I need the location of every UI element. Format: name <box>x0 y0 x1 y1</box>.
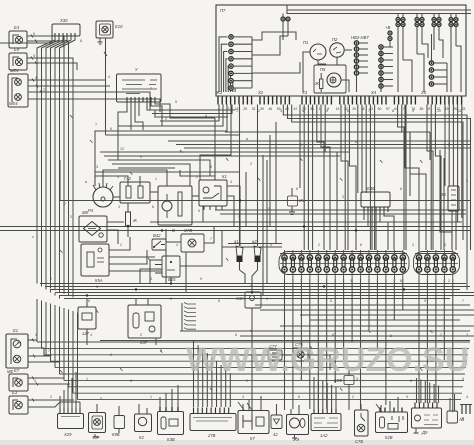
svg-text:127: 127 <box>82 331 90 336</box>
relay block U (flasher unit) <box>117 74 162 102</box>
wire <box>105 38 107 135</box>
svg-text:Е3: Е3 <box>12 390 18 395</box>
svg-text:5: 5 <box>175 100 177 104</box>
svg-text:4: 4 <box>242 395 244 399</box>
junction <box>127 225 129 227</box>
fuse-relay strip (right section) <box>414 252 460 275</box>
ground <box>98 38 103 44</box>
svg-text:8: 8 <box>392 109 394 113</box>
svg-text:4: 4 <box>90 333 92 337</box>
svg-text:х: х <box>32 235 34 239</box>
svg-text:6: 6 <box>298 395 300 399</box>
svg-text:7: 7 <box>48 349 50 353</box>
svg-text:7: 7 <box>300 279 302 283</box>
svg-text:2: 2 <box>440 333 442 337</box>
svg-text:2: 2 <box>165 117 167 121</box>
wire <box>59 396 61 408</box>
connector pairs (panel top feed) <box>397 14 399 18</box>
fuse A2 <box>254 246 261 256</box>
svg-text:3: 3 <box>342 195 344 199</box>
svg-text:8: 8 <box>410 379 412 383</box>
wire <box>168 140 470 142</box>
svg-text:К5А: К5А <box>95 278 103 283</box>
distributor R4 <box>93 187 113 207</box>
svg-text:2: 2 <box>120 243 122 247</box>
svg-text:6: 6 <box>444 243 446 247</box>
svg-text:К2: К2 <box>139 435 144 440</box>
svg-text:Ж1: Ж1 <box>298 198 305 203</box>
svg-text:Е4: Е4 <box>14 25 20 30</box>
ignition coil B13 <box>158 186 192 225</box>
wire <box>150 221 462 223</box>
wire <box>27 36 64 52</box>
connector X30 <box>52 24 80 36</box>
svg-text:6: 6 <box>88 299 90 303</box>
svg-text:10: 10 <box>437 109 441 113</box>
svg-text:С7Б: С7Б <box>355 439 363 444</box>
svg-text:В: В <box>172 228 175 233</box>
unit K7 <box>238 411 269 434</box>
wire (right feed bus) <box>283 105 467 291</box>
wire <box>262 155 264 296</box>
svg-text:2: 2 <box>352 395 354 399</box>
svg-text:2: 2 <box>50 277 52 281</box>
svg-text:27В: 27В <box>207 433 216 438</box>
svg-text:4: 4 <box>230 180 232 184</box>
wire <box>397 34 399 92</box>
svg-text:6: 6 <box>152 205 154 209</box>
wire <box>357 105 359 194</box>
wire <box>113 196 120 198</box>
svg-text:К2В: К2В <box>385 435 393 440</box>
svg-text:5: 5 <box>33 54 35 58</box>
svg-text:4: 4 <box>35 76 37 80</box>
lamp unit E7 <box>9 374 28 391</box>
svg-text:С9: С9 <box>93 435 99 440</box>
svg-text:М8: М8 <box>82 210 88 215</box>
wire <box>451 211 453 250</box>
relay K37 <box>128 305 161 338</box>
svg-text:Д9: Д9 <box>421 430 428 435</box>
connector pair <box>388 31 392 35</box>
svg-text:39: 39 <box>260 107 264 111</box>
unit K3V <box>158 412 184 435</box>
wire bundle fan from X30 <box>37 36 55 52</box>
svg-text:1: 1 <box>62 44 64 48</box>
svg-text:Е10: Е10 <box>115 24 123 29</box>
svg-text:2: 2 <box>50 395 52 399</box>
wire <box>148 109 235 111</box>
connector pair <box>281 17 285 21</box>
fuse-relay strip (left section) <box>279 252 409 275</box>
svg-text:5: 5 <box>428 107 430 111</box>
wire <box>269 135 271 226</box>
wire (panel top rails) <box>287 9 471 11</box>
svg-text:3: 3 <box>118 205 120 209</box>
wire group (drop to 1A2) <box>313 377 315 409</box>
svg-text:8: 8 <box>218 299 220 303</box>
svg-text:6: 6 <box>33 32 35 36</box>
wire <box>100 340 470 342</box>
svg-text:8: 8 <box>360 243 362 247</box>
svg-text:WWW.GRUZO.SU: WWW.GRUZO.SU <box>186 341 469 379</box>
svg-text:2: 2 <box>43 88 45 92</box>
gauge P2 (tachometer) <box>330 43 344 57</box>
svg-text:9: 9 <box>140 155 142 159</box>
svg-text:а1: а1 <box>234 239 239 244</box>
wire <box>28 79 105 81</box>
svg-text:1: 1 <box>150 395 152 399</box>
svg-text:Х: Х <box>460 416 464 421</box>
svg-text:57: 57 <box>386 107 390 111</box>
svg-text:а: а <box>246 137 248 141</box>
fuse S3A <box>245 292 261 308</box>
wire <box>118 102 127 160</box>
svg-text:1: 1 <box>155 177 157 181</box>
wire group (drop to D9) <box>416 378 418 403</box>
svg-text:2: 2 <box>448 279 450 283</box>
junction <box>86 294 88 296</box>
wire <box>100 151 350 153</box>
svg-text:а2: а2 <box>252 239 257 244</box>
svg-text:46: 46 <box>268 107 272 111</box>
svg-text:4: 4 <box>108 75 110 79</box>
svg-text:в: в <box>85 180 87 184</box>
svg-text:2: 2 <box>246 379 248 383</box>
svg-text:Х5: Х5 <box>420 90 427 95</box>
lamp unit E1 <box>6 334 28 368</box>
lamp box S7V <box>181 234 204 252</box>
svg-text:Е7: Е7 <box>14 368 20 373</box>
motor K2 <box>135 414 152 432</box>
wire <box>255 304 470 306</box>
svg-text:2: 2 <box>170 297 172 301</box>
svg-text:12: 12 <box>120 147 124 151</box>
svg-text:П2: П2 <box>332 37 338 42</box>
svg-text:3: 3 <box>280 109 282 113</box>
svg-text:1: 1 <box>238 215 240 219</box>
svg-text:МЕ: МЕ <box>7 369 13 374</box>
svg-text:3: 3 <box>150 277 152 281</box>
svg-text:5: 5 <box>270 243 272 247</box>
unit K2V <box>376 412 408 433</box>
svg-text:42: 42 <box>273 432 278 437</box>
svg-text:8: 8 <box>80 39 82 43</box>
svg-text:5: 5 <box>117 175 119 179</box>
svg-text:4: 4 <box>302 109 304 113</box>
svg-text:4: 4 <box>250 284 252 288</box>
svg-text:НВ2-НВ7: НВ2-НВ7 <box>351 35 369 40</box>
wire <box>108 160 210 176</box>
contact column HV2-HV7 <box>354 41 358 45</box>
svg-text:8: 8 <box>332 333 334 337</box>
svg-text:67: 67 <box>294 107 298 111</box>
wire <box>405 105 419 251</box>
wire group (harness drop to 27V) <box>193 341 195 407</box>
svg-text:1: 1 <box>95 122 97 126</box>
gauge P1 (speedometer) <box>310 44 326 60</box>
wire <box>215 209 466 211</box>
svg-text:1: 1 <box>350 279 352 283</box>
svg-text:МЕ4: МЕ4 <box>9 101 18 106</box>
lamp unit E4 <box>9 31 27 48</box>
wire <box>299 105 301 189</box>
svg-text:Х29: Х29 <box>63 432 72 437</box>
svg-text:8: 8 <box>400 279 402 283</box>
connector X (right edge) <box>462 405 470 414</box>
svg-text:2: 2 <box>140 333 142 337</box>
svg-text:25: 25 <box>243 107 247 111</box>
resistor Zh (ballast) <box>126 212 131 226</box>
wire <box>427 105 433 251</box>
diode 42 <box>271 415 282 429</box>
svg-text:Х30: Х30 <box>59 18 68 23</box>
svg-text:1: 1 <box>86 377 88 381</box>
wire <box>280 325 474 327</box>
capacitor S77 <box>268 350 282 360</box>
wire <box>251 37 253 88</box>
wire <box>318 60 326 64</box>
lamp unit E9 <box>9 53 27 70</box>
motor M8 (washer pump) <box>79 216 107 242</box>
relay K3F <box>344 376 354 385</box>
svg-text:4: 4 <box>266 297 268 301</box>
unit D9 <box>412 408 442 428</box>
bottom bus wires (staircase from harness) <box>37 341 470 343</box>
lamp E10 <box>96 21 113 38</box>
instrument panel P7 (outline) <box>216 5 466 96</box>
wire <box>398 105 404 251</box>
svg-text:6: 6 <box>130 379 132 383</box>
connector A3 <box>447 411 458 423</box>
lamp S75 <box>293 348 308 361</box>
svg-text:6: 6 <box>235 333 237 337</box>
svg-text:9: 9 <box>424 299 426 303</box>
svg-text:1: 1 <box>236 109 238 113</box>
wire <box>363 212 365 220</box>
wire <box>341 105 348 251</box>
svg-text:2: 2 <box>258 109 260 113</box>
wire <box>107 221 124 223</box>
lamp unit E3 <box>9 396 28 414</box>
relay V15 <box>162 256 180 277</box>
switch S7B <box>355 410 369 436</box>
svg-text:8: 8 <box>296 187 298 191</box>
wire <box>160 105 219 122</box>
contact column (panel telltales) <box>379 45 383 49</box>
wire <box>60 200 470 202</box>
svg-text:15: 15 <box>336 107 340 111</box>
svg-text:85: 85 <box>420 107 424 111</box>
svg-text:Р4: Р4 <box>88 208 94 213</box>
wire bundle (lower continuation) <box>36 299 38 342</box>
wire <box>28 377 64 379</box>
svg-text:Е1: Е1 <box>13 328 18 333</box>
svg-text:Х1: Х1 <box>440 192 446 197</box>
svg-text:3: 3 <box>376 302 378 306</box>
svg-text:4: 4 <box>205 114 207 118</box>
svg-text:5: 5 <box>100 397 102 401</box>
connector E4V <box>361 192 390 207</box>
motor Zh9 <box>287 415 309 435</box>
svg-text:8: 8 <box>210 165 212 169</box>
svg-text:2: 2 <box>466 179 468 183</box>
svg-text:11: 11 <box>458 109 462 113</box>
svg-text:П1: П1 <box>303 40 308 45</box>
svg-text:+В: +В <box>385 25 390 30</box>
lamp unit ME4 <box>8 74 28 107</box>
svg-text:32: 32 <box>252 107 256 111</box>
svg-text:6: 6 <box>110 127 112 131</box>
contact column (panel right) <box>429 61 433 65</box>
svg-text:7: 7 <box>462 299 464 303</box>
contact column (panel left) <box>229 35 233 39</box>
resistor Zh1 <box>288 196 298 206</box>
svg-text:Е9: Е9 <box>14 47 20 52</box>
svg-text:КЗВ: КЗВ <box>167 437 175 442</box>
svg-text:Х2: Х2 <box>257 90 264 95</box>
gauge P5 (fuel gauge) <box>314 65 346 93</box>
terminal block 1A2 <box>311 414 341 431</box>
svg-text:б: б <box>300 143 302 147</box>
lamp S9 <box>89 413 106 433</box>
svg-text:2: 2 <box>70 215 72 219</box>
svg-text:5: 5 <box>326 109 328 113</box>
fuse A1 <box>236 246 243 256</box>
svg-text:Х4: Х4 <box>370 90 377 95</box>
svg-text:Х3: Х3 <box>301 90 308 95</box>
relay 127 <box>78 307 96 329</box>
svg-text:1А2: 1А2 <box>320 433 328 438</box>
svg-text:36: 36 <box>361 107 365 111</box>
main bus wires (centre) <box>40 283 466 285</box>
wire <box>27 58 73 64</box>
terminal block 27V <box>190 414 236 431</box>
wire risers (strip to bottom units) <box>284 279 286 410</box>
wire <box>214 118 216 176</box>
svg-text:4: 4 <box>466 395 468 399</box>
wire <box>0 36 52 43</box>
relay K9V <box>114 416 125 429</box>
wire <box>28 339 37 341</box>
wire (nested runs to gauge contacts) <box>219 37 228 92</box>
svg-text:7: 7 <box>64 202 66 206</box>
svg-text:В42: В42 <box>153 233 161 238</box>
wire bundle (main harness, left) <box>36 52 38 283</box>
svg-text:2: 2 <box>196 175 198 179</box>
svg-text:в: в <box>355 140 357 144</box>
capacitor block G42 <box>120 182 150 203</box>
svg-text:7: 7 <box>368 109 370 113</box>
svg-text:3: 3 <box>96 165 98 169</box>
wire <box>444 105 446 187</box>
connector X1 <box>448 186 459 211</box>
svg-text:К1: К1 <box>222 174 227 179</box>
svg-text:7: 7 <box>210 237 212 241</box>
svg-text:2: 2 <box>250 162 252 166</box>
svg-text:С7В: С7В <box>184 228 192 233</box>
wire <box>225 131 430 133</box>
terminal fan (to harness) <box>184 303 196 305</box>
svg-text:2: 2 <box>110 353 112 357</box>
svg-text:29: 29 <box>352 107 356 111</box>
svg-text:3: 3 <box>466 333 468 337</box>
connector pin band X (panel bottom) <box>216 95 466 97</box>
svg-text:4: 4 <box>34 379 36 383</box>
svg-text:50: 50 <box>378 107 382 111</box>
wire <box>109 237 130 250</box>
svg-text:5: 5 <box>198 209 200 213</box>
svg-text:9: 9 <box>406 395 408 399</box>
relay K5A <box>81 244 109 276</box>
svg-text:5: 5 <box>96 285 98 289</box>
svg-text:9: 9 <box>268 207 270 211</box>
svg-text:6: 6 <box>347 109 349 113</box>
svg-text:7: 7 <box>150 87 152 91</box>
connector X29 <box>58 414 84 429</box>
svg-text:К7: К7 <box>250 436 255 441</box>
svg-text:5: 5 <box>330 299 332 303</box>
svg-text:9: 9 <box>412 109 414 113</box>
wire <box>28 399 74 401</box>
wire <box>159 397 161 407</box>
svg-text:П5: П5 <box>320 67 326 72</box>
svg-text:П7: П7 <box>220 8 226 13</box>
svg-text:6: 6 <box>400 187 402 191</box>
svg-text:5: 5 <box>390 334 392 338</box>
wire <box>95 171 240 173</box>
svg-text:3: 3 <box>412 243 414 247</box>
svg-text:В15: В15 <box>168 277 176 282</box>
relay K1 <box>199 180 227 206</box>
wire <box>317 105 324 251</box>
wire connector marks <box>60 115 432 391</box>
wire (bus corner bends into harness) <box>36 281 38 284</box>
svg-text:4: 4 <box>176 243 178 247</box>
svg-text:2: 2 <box>318 243 320 247</box>
resistor R (gauge shunt) <box>320 79 323 89</box>
wire <box>239 105 241 247</box>
svg-text:9: 9 <box>200 277 202 281</box>
svg-text:МЕ4: МЕ4 <box>10 68 19 73</box>
svg-text:Ж1: Ж1 <box>215 90 222 95</box>
svg-text:Е4В: Е4В <box>367 186 375 191</box>
wire <box>228 243 282 245</box>
wire <box>165 229 167 284</box>
switch V42 <box>152 239 166 250</box>
svg-text:1: 1 <box>35 333 37 337</box>
svg-text:1: 1 <box>466 243 468 247</box>
wire <box>95 176 128 186</box>
